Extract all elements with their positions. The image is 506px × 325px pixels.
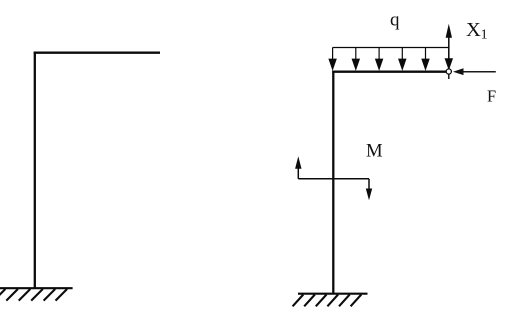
left support hatching [0,289,67,301]
left frame beam [34,52,160,54]
force F arrow (leftward) [453,68,496,75]
left support ground line [0,287,73,289]
force X1 arrow (upward) [446,24,452,68]
svg-text:1: 1 [481,28,488,43]
distributed load arrows [329,48,452,70]
right support ground line [298,293,368,295]
right frame beam [332,71,446,73]
svg-text:F: F [487,87,496,106]
svg-text:X: X [466,19,481,41]
distributed load q top line [333,47,449,49]
svg-text:M: M [366,141,383,162]
right support hatching [293,295,362,307]
hinge stub below circle [448,74,450,79]
hinge circle node [446,69,451,74]
left frame column [34,52,36,289]
moment M couple [295,156,372,200]
right frame column [332,71,334,294]
svg-text:q: q [390,10,400,31]
